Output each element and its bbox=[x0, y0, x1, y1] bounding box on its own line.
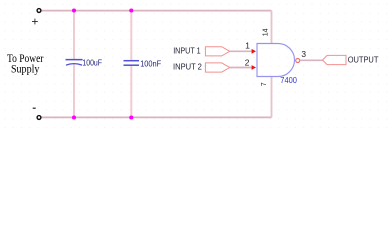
svg-text:OUTPUT: OUTPUT bbox=[348, 55, 379, 64]
terminal - bbox=[37, 116, 41, 120]
port INPUT 2 bbox=[205, 63, 229, 72]
wire pin14 drop bbox=[271, 11, 273, 44]
svg-text:Supply: Supply bbox=[11, 63, 40, 75]
node junction top C2 bbox=[129, 8, 133, 12]
pin arrow input2 bbox=[252, 65, 256, 70]
svg-text:7: 7 bbox=[261, 82, 268, 86]
svg-text:100nF: 100nF bbox=[140, 58, 161, 68]
node junction bottom C2 bbox=[129, 115, 133, 119]
capacitor C1 100uF bbox=[66, 60, 83, 66]
NAND gate U1 (7400) body bbox=[257, 44, 295, 77]
terminal + bbox=[37, 9, 41, 13]
svg-text:INPUT 2: INPUT 2 bbox=[173, 63, 202, 72]
wire C2 vertical bbox=[130, 11, 132, 61]
label To Power Supply bbox=[7, 53, 44, 76]
port OUTPUT bbox=[323, 55, 347, 64]
wire C2 lower bbox=[130, 66, 132, 118]
pin arrow input1 bbox=[252, 49, 256, 54]
NAND gate U1 output bubble bbox=[296, 59, 300, 63]
wire output bbox=[300, 59, 323, 61]
svg-text:7400: 7400 bbox=[280, 75, 297, 85]
wire pin7 drop bbox=[271, 77, 273, 118]
wire input1 bbox=[230, 50, 253, 52]
port INPUT 1 bbox=[205, 47, 229, 56]
svg-text:14: 14 bbox=[263, 28, 270, 36]
label - bbox=[33, 107, 36, 109]
wire input2 bbox=[230, 67, 253, 69]
wire C1 vertical bbox=[73, 11, 75, 60]
wire C1 lower bbox=[73, 64, 75, 118]
svg-text:100uF: 100uF bbox=[82, 57, 102, 67]
svg-text:3: 3 bbox=[301, 49, 306, 59]
svg-text:INPUT 1: INPUT 1 bbox=[173, 46, 201, 55]
node junction bottom C1 bbox=[72, 115, 76, 119]
svg-text:1: 1 bbox=[245, 40, 250, 50]
capacitor C2 100nF bbox=[124, 61, 140, 65]
wire bottom rail bbox=[42, 116, 272, 118]
node junction top C1 bbox=[72, 8, 76, 12]
label + bbox=[32, 19, 38, 25]
wire top rail bbox=[42, 10, 272, 12]
svg-text:2: 2 bbox=[245, 57, 250, 67]
